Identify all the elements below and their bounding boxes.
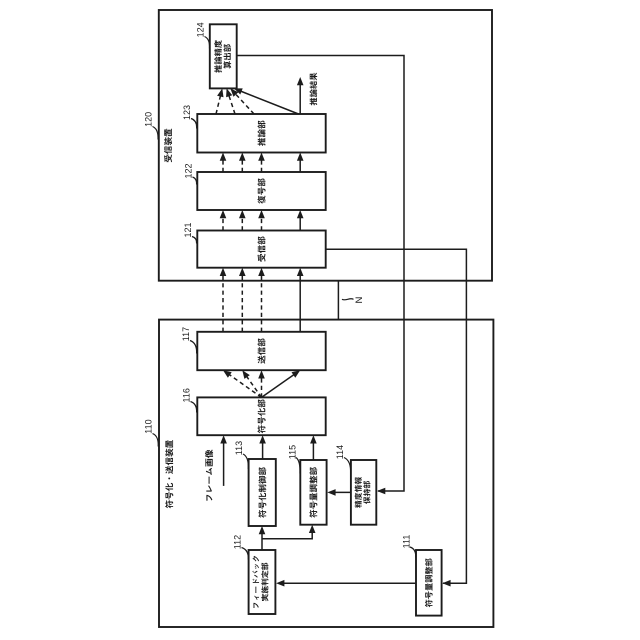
dashed arrow 117 to 121 (#3) [258, 268, 265, 332]
dashed arrow 117 to 121 (#2) [239, 268, 246, 332]
svg-text:122: 122 [184, 163, 194, 178]
block 116 符号化部 [197, 397, 325, 435]
block 124 推論精度算出部 [210, 24, 237, 88]
svg-text:115: 115 [287, 445, 297, 459]
dashed arrow 122 to 123 (#2) [239, 153, 246, 173]
solid arrow 122 to 123 [297, 153, 304, 173]
wire branch 112 to 115 [262, 532, 312, 539]
arrow 111 to 112 [276, 580, 416, 587]
svg-text:116: 116 [182, 388, 192, 402]
input label フレーム画像 [205, 450, 213, 501]
network line between devices [337, 281, 339, 320]
arrow 114 to 115 [327, 489, 351, 496]
svg-text:N: N [354, 296, 365, 303]
dashed arrow 123 to 124 (#3) [230, 88, 254, 114]
solid arrow 116 to 117 [262, 370, 301, 397]
dashed arrow 122 to 123 (#3) [258, 153, 265, 173]
block 111 符号量調整部 [416, 550, 442, 616]
svg-text:110: 110 [144, 419, 154, 433]
arrow 113 to 116 [259, 435, 266, 459]
label 116 [182, 388, 197, 412]
solid arrow 123 to 124 [234, 88, 299, 114]
output label 推論結果 [309, 73, 317, 106]
svg-text:113: 113 [234, 441, 244, 455]
dashed arrow 123 to 124 (#2) [226, 88, 235, 114]
block 112 フィードバック実施判定部 [249, 550, 276, 614]
dashed arrow 116 to 117 (#1) [223, 370, 262, 397]
svg-text:111: 111 [402, 535, 412, 549]
label 115 [287, 445, 300, 474]
arrow 112 to 113 [259, 526, 266, 550]
solid arrow 117 to 121 [297, 268, 304, 332]
dashed arrow 116 to 117 (#2) [242, 370, 261, 397]
svg-text:117: 117 [181, 327, 191, 341]
svg-text:123: 123 [182, 105, 192, 120]
block 115 符号量調整部 [300, 460, 326, 525]
dashed arrow 121 to 122 (#2) [239, 210, 246, 231]
label 122 [184, 163, 197, 184]
arrow into 111 bottom [442, 580, 450, 587]
svg-text:112: 112 [233, 535, 243, 549]
label 124 [196, 22, 210, 48]
label 121 [183, 222, 196, 243]
block 121 受信部 [197, 231, 325, 268]
dashed arrow 121 to 122 (#3) [258, 210, 265, 231]
label 114 [335, 445, 350, 474]
arrow into 114 bottom [377, 488, 385, 495]
block 114 精度情報保持部 [351, 460, 376, 525]
label 受信装置 [164, 129, 172, 163]
device box 120 受信装置 (receiver) [159, 10, 492, 281]
arrow into 115 left [309, 525, 316, 533]
label 123 [182, 105, 196, 129]
label 112 [233, 535, 249, 560]
dashed arrow 123 to 124 (#1) [216, 88, 224, 114]
svg-text:114: 114 [335, 445, 345, 459]
dashed arrow 122 to 123 (#1) [220, 153, 227, 173]
block 122 復号部 [197, 172, 325, 210]
dashed arrow 121 to 122 (#1) [220, 210, 227, 231]
device box 110 符号化・送信装置 (encoder/transmitter) [159, 320, 493, 627]
label 113 [234, 441, 248, 469]
whole figure drawn in readable orientation then rotated 90deg CCW [143, 10, 493, 627]
solid arrow 121 to 122 [297, 210, 304, 231]
dashed arrow 117 to 121 (#1) [220, 268, 227, 332]
block 113 符号化制御部 [249, 459, 276, 526]
arrow 115 to 116 [310, 435, 317, 460]
input arrow フレーム画像 to 116 [220, 435, 227, 486]
svg-text:120: 120 [143, 112, 153, 127]
label 120 [143, 112, 158, 140]
label N [342, 296, 365, 303]
wire 121 down (feedback) to 111 [326, 249, 467, 583]
svg-text:121: 121 [183, 222, 193, 237]
svg-text:124: 124 [196, 22, 206, 37]
label 117 [181, 327, 196, 354]
dashed arrow 116 to 117 (#3) [258, 370, 265, 397]
block 123 推論部 [197, 114, 325, 153]
label 符号化・送信装置 [165, 440, 173, 508]
label 110 [144, 419, 159, 446]
block 117 送信部 [197, 332, 325, 370]
label 111 [402, 535, 416, 558]
wire 124 down (feedback accuracy info) [237, 56, 404, 492]
output arrow 推論結果 [297, 77, 304, 114]
